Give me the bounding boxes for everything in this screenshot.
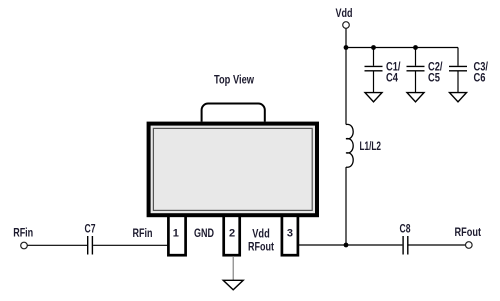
RFout output terminal bbox=[466, 242, 473, 249]
svg-text:Vdd: Vdd bbox=[252, 227, 270, 241]
wire bus to inductor bbox=[345, 48, 347, 125]
svg-text:3: 3 bbox=[287, 227, 293, 239]
wire C8 to output terminal bbox=[409, 244, 466, 246]
wire Vdd terminal to bus bbox=[345, 29, 347, 48]
capacitor C2/C5 bbox=[407, 48, 425, 93]
node bus/L1 junction bbox=[344, 45, 349, 50]
pin 2 bbox=[224, 216, 240, 255]
node bus/C2 junction bbox=[413, 45, 418, 50]
wire inductor to output node bbox=[345, 167, 347, 245]
svg-text:RFout: RFout bbox=[248, 240, 274, 254]
svg-text:C5: C5 bbox=[428, 71, 440, 85]
ground C3/C6 bbox=[450, 93, 467, 102]
package tab bbox=[202, 104, 265, 122]
pin 1 bbox=[168, 216, 185, 255]
svg-text:C8: C8 bbox=[400, 222, 411, 236]
svg-text:C4: C4 bbox=[386, 71, 398, 85]
ground C1/C4 bbox=[365, 93, 382, 102]
svg-text:2: 2 bbox=[229, 227, 235, 239]
inductor L1/L2 bbox=[346, 124, 353, 167]
svg-text:GND: GND bbox=[194, 226, 214, 240]
capacitor C3/C6 bbox=[449, 48, 467, 93]
pin 3 bbox=[282, 216, 298, 255]
node L1/output junction bbox=[344, 243, 349, 248]
svg-text:Top View: Top View bbox=[214, 73, 255, 87]
wire pin 2 to ground bbox=[232, 256, 234, 280]
svg-text:RFout: RFout bbox=[455, 225, 482, 239]
capacitor C8 bbox=[403, 236, 408, 255]
svg-text:L1/L2: L1/L2 bbox=[360, 139, 382, 153]
svg-text:RFin: RFin bbox=[133, 226, 153, 240]
wire top bus bbox=[346, 47, 458, 49]
svg-text:C7: C7 bbox=[85, 222, 96, 236]
Vdd terminal bbox=[343, 22, 350, 29]
ground C2/C5 bbox=[407, 93, 424, 102]
svg-text:Vdd: Vdd bbox=[336, 6, 353, 20]
wire pin 3 to output node bbox=[298, 244, 346, 246]
svg-text:1: 1 bbox=[173, 227, 179, 239]
RFin input terminal bbox=[21, 242, 28, 249]
capacitor C7 bbox=[88, 236, 93, 255]
wire input to C7 bbox=[28, 244, 88, 246]
svg-text:RFin: RFin bbox=[13, 226, 33, 240]
capacitor C1/C4 bbox=[365, 48, 383, 93]
ground (pin 2) bbox=[223, 280, 243, 290]
svg-text:C6: C6 bbox=[474, 71, 486, 85]
wire C7 to pin 1 bbox=[93, 244, 168, 246]
node bus/C1 junction bbox=[371, 45, 376, 50]
wire node to C8 bbox=[346, 244, 402, 246]
package body U1 (top view) bbox=[149, 124, 317, 216]
